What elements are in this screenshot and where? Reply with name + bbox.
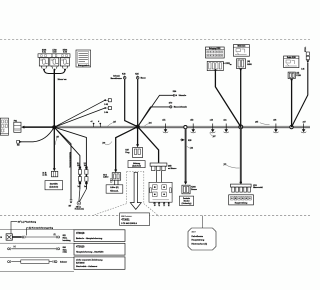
connector M7	[69, 200, 73, 208]
svg-text:34B an: 34B an	[76, 206, 81, 209]
svg-text:Relais K186: Relais K186	[287, 57, 296, 59]
svg-text:)37: )37	[213, 136, 216, 138]
wire ring tap down to K300	[184, 129, 187, 185]
caption box Starthilfe	[45, 181, 63, 190]
svg-text:a05: a05	[255, 121, 258, 123]
border top dashed	[0, 38, 310, 40]
legend row 2 wire	[8, 246, 68, 254]
svg-text:(+): (+)	[14, 246, 16, 248]
svg-text:K406: K406	[247, 63, 251, 66]
svg-text:Starthilfe: Starthilfe	[50, 182, 58, 185]
svg-text:a51: a51	[162, 120, 165, 122]
svg-text:siehe separate Zeichnung: siehe separate Zeichnung	[76, 258, 103, 261]
connector K25	[135, 73, 146, 79]
svg-text:leuchtung: leuchtung	[63, 239, 71, 242]
connector K48 (screw terminal)	[111, 72, 126, 79]
wire fuse merge	[44, 70, 65, 74]
svg-text:Kl.30: Kl.30	[158, 202, 160, 206]
hub node C	[239, 125, 243, 129]
svg-text:Fmg.: Fmg.	[125, 152, 130, 154]
svg-text:d: d	[98, 121, 100, 123]
fuse F3 value label	[63, 49, 67, 53]
svg-text:4T3051: 4T3051	[121, 219, 130, 222]
svg-text:)72: )72	[224, 164, 227, 166]
connector K87	[125, 148, 142, 158]
bird splice a06	[273, 120, 278, 133]
note box 4T3018	[74, 230, 125, 242]
svg-text:Hauptsicherung - Starthilfe: Hauptsicherung - Starthilfe	[76, 250, 104, 253]
connector K406	[230, 59, 252, 69]
wire hub B to stub S70	[138, 107, 170, 127]
svg-text:Rückfahrscheinw.: Rückfahrscheinw.	[68, 152, 70, 168]
svg-text:Masse-Schraube: Masse-Schraube	[174, 107, 187, 109]
connector K300	[182, 185, 197, 194]
leader a37b	[210, 133, 216, 138]
svg-text:Anlasser: Anlasser	[60, 260, 67, 263]
fuse F2	[50, 58, 59, 71]
connector K60	[103, 173, 121, 185]
svg-text:)37: )37	[113, 121, 116, 123]
bird splice a3a	[223, 120, 229, 133]
svg-text:)09: )09	[103, 143, 106, 145]
svg-text:e1: e1	[91, 121, 93, 123]
svg-text:52T3003: 52T3003	[76, 263, 85, 265]
hub node A	[52, 125, 56, 129]
svg-text:Blinkrelais: Blinkrelais	[237, 46, 245, 48]
fuse panel mini box	[0, 118, 8, 135]
hub node D	[290, 125, 293, 128]
svg-text:Klimaanl.: Klimaanl.	[110, 190, 119, 192]
detail arrow	[130, 172, 141, 209]
caption box K87	[128, 161, 145, 168]
svg-text:Masse: Masse	[141, 78, 146, 80]
svg-text:084: 084	[63, 246, 67, 249]
svg-text:Hauptverteilung: Hauptverteilung	[235, 202, 248, 205]
legend rules	[0, 229, 74, 271]
connector K33 strip	[231, 184, 264, 192]
leader a72	[224, 164, 240, 168]
svg-text:a06: a06	[273, 120, 276, 122]
svg-text:a3a: a3a	[223, 120, 227, 122]
svg-text:Hauptstrang: Hauptstrang	[192, 239, 205, 242]
connector K30 (Starthilfe)	[42, 171, 57, 177]
svg-text:an M.: an M.	[42, 175, 47, 177]
svg-text:an Masse: an Masse	[168, 168, 176, 170]
svg-text:K186: K186	[296, 75, 300, 77]
stub connector K84	[173, 90, 186, 97]
svg-text:3-02: 3-02	[104, 104, 108, 106]
sheet reference octagon	[188, 228, 216, 250]
svg-text:Bezugszeich.: Bezugszeich.	[78, 65, 90, 67]
note box 52T3003	[74, 257, 125, 269]
legend row 3 wire	[8, 260, 68, 264]
wire hub A to chain 2	[54, 127, 86, 189]
svg-text:9 76 443 2003 A: 9 76 443 2003 A	[121, 222, 137, 225]
svg-text:4T3020: 4T3020	[76, 246, 85, 249]
terminal Y30 far right	[301, 47, 309, 71]
leader a33	[187, 146, 193, 149]
wire hub B to 26B	[138, 127, 159, 163]
hub node B	[136, 125, 140, 129]
sheet link stub	[201, 216, 203, 228]
svg-text:Startrelais - Anlasser: Startrelais - Anlasser	[76, 265, 98, 268]
svg-text:(Zubehör): (Zubehör)	[132, 166, 141, 168]
svg-text:Belegung K552: Belegung K552	[209, 48, 220, 50]
caption box fan	[106, 185, 123, 193]
bird splice a16	[210, 120, 216, 133]
fuse F1 value label	[42, 49, 47, 53]
main bus line	[53, 126, 310, 129]
svg-text:5-6a: 5-6a	[42, 52, 47, 54]
border bottom dashed	[0, 215, 310, 217]
svg-text:Kl.31: Kl.31	[153, 202, 155, 206]
connector 26B	[150, 163, 176, 171]
legend callout plusleitung	[11, 220, 37, 233]
junction ring (bus tap)	[184, 126, 187, 129]
wire F91 to hub A	[21, 126, 52, 129]
svg-text:3-04: 3-04	[104, 111, 109, 114]
fuse F2 value label	[52, 49, 56, 53]
wire hub A to stub 3-02	[54, 100, 105, 127]
legend callout kennzeichnung	[27, 228, 54, 236]
ring terminal 34B	[75, 201, 85, 210]
socket box U26	[149, 182, 172, 204]
leader a09	[103, 142, 113, 145]
svg-text:1-84: 1-84	[301, 68, 304, 71]
svg-text:30: 30	[0, 237, 2, 239]
leader a04	[145, 121, 153, 126]
svg-text:Lüfter (K): Lüfter (K)	[110, 186, 119, 189]
wire hub B to K60 (fan)	[114, 127, 138, 173]
part number box 4T3051	[120, 213, 150, 226]
leader a17	[55, 137, 59, 145]
wire K48 to hub B	[125, 79, 138, 127]
svg-text:(Vorbereitg.): (Vorbereitg.)	[182, 202, 192, 205]
svg-text:16mm² sw: 16mm² sw	[58, 78, 68, 81]
svg-text:K25: K25	[135, 73, 138, 75]
wire hub A to M7	[54, 127, 71, 199]
svg-text:K48: K48	[122, 72, 125, 75]
wire gauge label	[58, 78, 68, 81]
svg-text:a52: a52	[190, 120, 193, 122]
svg-text:Bremse: Bremse	[191, 189, 197, 191]
leader a05	[255, 121, 270, 124]
wires chains to ring terminal	[79, 189, 87, 201]
relay box above K406	[233, 45, 249, 57]
legend row 1 battery symbol	[0, 234, 12, 240]
svg-text:4T3018: 4T3018	[76, 232, 85, 235]
note box 4T3020	[74, 243, 125, 255]
splice K85 on drop wire	[180, 138, 191, 142]
svg-text:Hinterachse (b): Hinterachse (b)	[192, 242, 208, 245]
wire hub A to stub 3-04	[54, 108, 105, 127]
chain 1 connectors	[77, 163, 82, 188]
svg-text:)33: )33	[190, 147, 193, 149]
legend row 1 wire	[12, 234, 70, 242]
svg-text:Masseklemme: Masseklemme	[111, 78, 122, 80]
fuse holder strip	[38, 54, 70, 58]
svg-text:5-3: 5-3	[84, 163, 86, 165]
svg-text:Y-Kl.30: Y-Kl.30	[304, 47, 306, 52]
svg-text:(1): (1)	[54, 234, 56, 236]
relay box above K186	[284, 56, 299, 68]
svg-text:Heizung: Heizung	[133, 163, 141, 165]
pins 26B to socket	[156, 171, 161, 183]
svg-text:K85: K85	[188, 140, 191, 142]
splice marks on bus	[91, 121, 102, 127]
bird splice a07	[301, 121, 306, 132]
wire battery feed (fuses to hub A)	[53, 70, 55, 127]
fuse F91	[14, 121, 21, 133]
svg-text:Batterie - Hauptsicherung: Batterie - Hauptsicherung	[76, 237, 103, 240]
connector K186	[288, 72, 301, 78]
connector K552	[207, 61, 230, 71]
caption box K300	[180, 196, 194, 205]
wire K25 to hub B	[137, 79, 139, 127]
svg-text:(1) Kennzeichnungsring: (1) Kennzeichnungsring	[29, 228, 54, 230]
wire name along M7 line	[68, 152, 70, 168]
svg-text:5-02: 5-02	[53, 52, 57, 54]
svg-text:K84: K84	[173, 90, 177, 93]
svg-text:Kl.58: Kl.58	[167, 202, 169, 206]
connector M2	[17, 140, 22, 146]
stub connector 3-02	[104, 99, 111, 106]
svg-text:M7: M7	[69, 205, 72, 207]
stub connector 3-04	[104, 107, 111, 114]
svg-text:60² (+) Plusleitung: 60² (+) Plusleitung	[18, 220, 37, 223]
svg-text:a16: a16	[210, 120, 213, 122]
svg-text:S70: S70	[169, 103, 172, 105]
svg-text:5-3: 5-3	[77, 163, 79, 165]
svg-text:5-06: 5-06	[63, 52, 67, 54]
bird splice a51	[162, 120, 168, 133]
svg-text:Kabelbaum: Kabelbaum	[192, 236, 204, 238]
detail zoom funnel dashed	[93, 171, 159, 216]
fuse F1	[39, 58, 48, 71]
wire hub C down to K33	[240, 127, 242, 184]
svg-text:)04: )04	[149, 121, 153, 124]
svg-text:Lüfter: Lüfter	[103, 176, 109, 179]
wire K406 to hub C	[239, 68, 242, 127]
stub connector S70	[169, 103, 187, 109]
wire hub B down to K87	[136, 127, 139, 148]
wire hub A down to K30	[53, 127, 56, 171]
svg-text:Schraube: Schraube	[179, 95, 187, 97]
socket frame K33	[229, 195, 254, 205]
svg-text:relais: relais	[63, 252, 67, 254]
svg-text:1a2: 1a2	[78, 186, 81, 188]
svg-text:a07: a07	[303, 121, 306, 123]
svg-text:an: an	[230, 64, 232, 66]
pin-number box above K552	[206, 47, 225, 58]
wire K186 to hub D	[290, 79, 293, 127]
fuse F3	[60, 58, 69, 71]
pin labels under socket U26	[153, 202, 169, 206]
svg-text:K300: K300	[191, 186, 195, 188]
chain 2 connectors	[84, 163, 88, 188]
svg-text:Kl.15: Kl.15	[162, 202, 164, 206]
leader a37	[108, 121, 116, 126]
stamp box (plan legend)	[76, 50, 91, 67]
svg-text:M2: M2	[17, 145, 20, 147]
wire hub B to stub K84	[138, 95, 174, 126]
wire Y30 to hub D	[292, 63, 308, 127]
bird splice a52	[190, 120, 196, 133]
wire hub A to chain 1	[54, 127, 80, 189]
svg-text:(Zubehör): (Zubehör)	[49, 187, 58, 189]
wire M2 to hub A	[21, 127, 54, 142]
wire K552 to hub C	[215, 71, 240, 127]
svg-text:K33: K33	[253, 185, 256, 187]
